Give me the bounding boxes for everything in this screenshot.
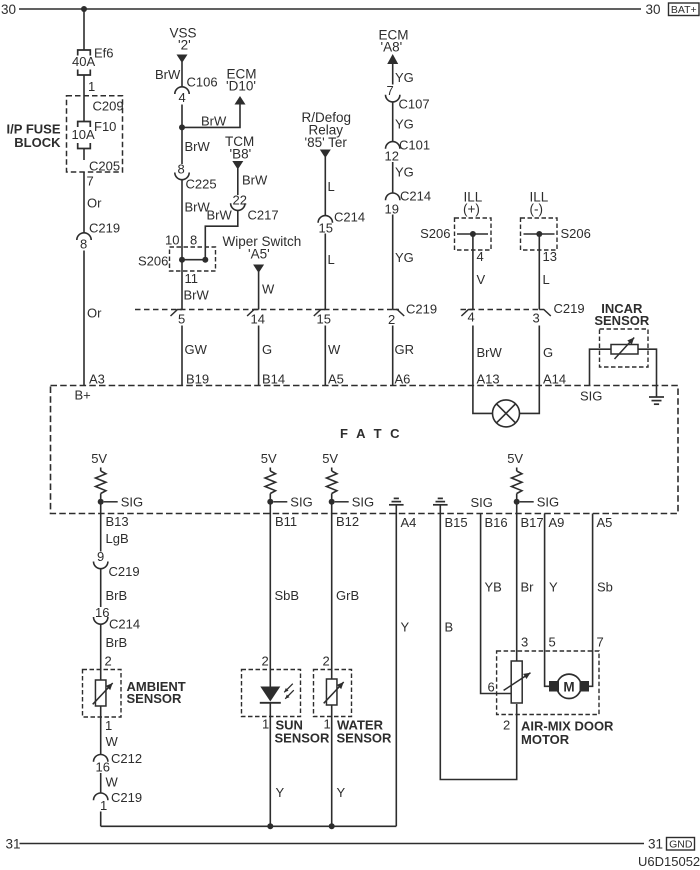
wire: FATC pin B17 to air-mix motor pin 3, Br (516, 514, 518, 662)
junction dot S206 ILL+ (470, 231, 476, 237)
svg-text:Y: Y (549, 580, 558, 595)
wire: ambient sensor pin 1 to C212, W (100, 706, 102, 755)
svg-text:A5: A5 (328, 372, 344, 387)
ambient sensor thermistor (95, 680, 106, 706)
svg-text:C219: C219 (89, 221, 120, 236)
junction dot water sensor on ground bus (329, 823, 335, 829)
svg-text:1: 1 (262, 717, 269, 732)
wire: FATC pin A14 to lamp (520, 386, 540, 414)
svg-text:BAT+: BAT+ (671, 4, 697, 16)
wire: INCAR sensor to ground (638, 349, 657, 397)
svg-text:(+): (+) (463, 202, 480, 217)
svg-text:15: 15 (317, 312, 331, 327)
wire: C107 to C101, YG (392, 102, 394, 142)
svg-text:1: 1 (324, 717, 331, 732)
svg-text:A14: A14 (543, 372, 566, 387)
svg-text:W: W (106, 775, 119, 790)
svg-text:5V: 5V (261, 451, 277, 466)
svg-text:2: 2 (262, 654, 269, 669)
svg-text:YG: YG (395, 250, 414, 265)
junction dot BrW splice (179, 124, 185, 130)
svg-text:C219: C219 (109, 564, 140, 579)
junction dot S206 pin 8 (202, 257, 208, 263)
svg-text:Sb: Sb (597, 580, 613, 595)
wire: S206 pin 13 to C219 pin 3, L (538, 234, 540, 310)
svg-text:1: 1 (88, 79, 95, 94)
svg-text:BLOCK: BLOCK (14, 135, 61, 150)
svg-text:GR: GR (395, 342, 415, 357)
svg-text:BrW: BrW (207, 208, 233, 223)
splice S206 box (170, 247, 216, 271)
svg-text:SENSOR: SENSOR (337, 731, 393, 746)
svg-text:B16: B16 (485, 515, 508, 530)
wire: C219 pin 5 to FATC pin B19, GW (181, 326, 183, 386)
wire: FATC pin A9 to air-mix motor pin 5, Y (545, 514, 550, 687)
svg-text:Or: Or (87, 196, 102, 211)
svg-text:12: 12 (385, 149, 399, 164)
ground (FATC pin B15) (433, 504, 448, 506)
svg-text:1: 1 (100, 798, 107, 813)
svg-text:6: 6 (488, 680, 495, 695)
ground rail 31 (GND) (20, 843, 645, 845)
svg-text:YB: YB (485, 580, 502, 595)
svg-text:30: 30 (646, 2, 661, 17)
illumination lamp (493, 400, 520, 427)
air-mix position potentiometer (511, 661, 522, 703)
svg-text:C219: C219 (111, 790, 142, 805)
svg-text:SIG: SIG (121, 495, 143, 510)
svg-text:(-): (-) (530, 202, 544, 217)
junction dot S206 pin 10/11 (179, 257, 185, 263)
svg-text:C219: C219 (554, 301, 585, 316)
power rail 30 (BAT+) (19, 8, 641, 10)
svg-text:SIG: SIG (352, 495, 374, 510)
motor terminal left (550, 682, 559, 692)
water sensor box (314, 670, 352, 717)
ambient sensor box (83, 670, 122, 718)
BAT+ terminal box (669, 3, 700, 16)
svg-text:BrW: BrW (184, 288, 210, 303)
svg-text:SbB: SbB (275, 588, 300, 603)
connector C219 pin 4 tick (461, 310, 473, 317)
svg-text:31: 31 (648, 837, 663, 852)
svg-text:C219: C219 (406, 302, 437, 317)
wire: FATC pin B15 to air-mix motor pin 2, B (440, 514, 516, 780)
svg-text:19: 19 (385, 202, 399, 217)
fuse F10 10A (78, 122, 91, 128)
svg-text:B11: B11 (275, 514, 297, 529)
svg-text:BrW: BrW (185, 139, 211, 154)
svg-text:'2': '2' (178, 38, 191, 53)
wire: FATC pin A4 to ground bus, Y (395, 514, 397, 827)
svg-text:BrW: BrW (242, 173, 268, 188)
svg-text:C205: C205 (89, 159, 120, 174)
branch wire to ECM 'D10' (182, 104, 240, 127)
wire: C214 to ambient sensor pin 2, BrB (100, 624, 102, 680)
splice S206 box (ILL+) (455, 218, 492, 250)
svg-text:YG: YG (395, 70, 414, 85)
svg-text:2: 2 (105, 654, 112, 669)
svg-text:B15: B15 (445, 515, 468, 530)
wire: sun sensor pin 1 to ground bus, Y (269, 703, 271, 827)
svg-text:M: M (563, 679, 574, 694)
splice S206 box (ILL-) (521, 218, 558, 250)
connector C219 pin 2 tick and label (393, 310, 405, 317)
svg-text:L: L (328, 179, 335, 194)
svg-text:Y: Y (276, 785, 285, 800)
INCAR sensor thermistor (611, 345, 638, 355)
junction dot sun sensor on ground bus (267, 823, 273, 829)
wire: C219 pin 3 to FATC pin A14, G (538, 326, 540, 386)
connector C219 pin 14 tick (247, 310, 259, 317)
svg-text:10: 10 (165, 233, 179, 248)
svg-text:Br: Br (521, 580, 535, 595)
svg-text:BrW: BrW (477, 345, 503, 360)
wire: C219 pin 2 to FATC pin A6, GR (392, 326, 394, 386)
I/P fuse block box (67, 96, 123, 172)
svg-text:A5: A5 (597, 515, 613, 530)
wire: FATC pin B13 to C219 pin 9, LgB (100, 514, 102, 552)
svg-text:2: 2 (323, 654, 330, 669)
sun sensor photodiode (260, 687, 280, 702)
INCAR sensor box (600, 329, 649, 367)
svg-text:15: 15 (319, 221, 333, 236)
svg-text:SENSOR: SENSOR (127, 691, 183, 706)
svg-text:3: 3 (521, 635, 528, 650)
svg-text:G: G (262, 342, 272, 357)
svg-text:BrW: BrW (155, 67, 181, 82)
wire: Or to FATC pin A3 (83, 251, 85, 386)
wire: FATC pin B11 to sun sensor, SbB (269, 514, 271, 687)
svg-text:'85' Ter: '85' Ter (305, 135, 348, 150)
wire: relay to C214 pin 15, L (324, 157, 326, 216)
wire: water sensor pin 1 to ground bus, Y (331, 705, 333, 826)
svg-text:10A: 10A (72, 127, 95, 142)
junction dot on rail 30 (81, 6, 87, 12)
svg-text:C225: C225 (186, 177, 217, 192)
svg-text:W: W (262, 282, 275, 297)
splice S206 bus wire (182, 259, 205, 261)
svg-text:B: B (445, 620, 454, 635)
svg-text:A6: A6 (395, 372, 411, 387)
connector C219 pin 15 tick (314, 310, 326, 317)
svg-text:B17: B17 (521, 515, 544, 530)
svg-text:5V: 5V (322, 451, 338, 466)
svg-text:A9: A9 (549, 515, 565, 530)
svg-text:B13: B13 (106, 514, 129, 529)
svg-text:5: 5 (549, 635, 556, 650)
svg-text:SIG: SIG (290, 495, 312, 510)
wire: C219 pin 4 to FATC pin A13, BrW (472, 326, 474, 386)
wire: C219 pin 14 to FATC pin B14, G (258, 326, 260, 386)
wire: C219 pin 15 to FATC pin A5, W (324, 326, 326, 386)
svg-text:C214: C214 (334, 210, 365, 225)
GND terminal box (667, 838, 695, 851)
svg-text:W: W (106, 734, 119, 749)
svg-text:C209: C209 (93, 99, 124, 114)
svg-text:C214: C214 (400, 189, 431, 204)
svg-text:BrB: BrB (106, 635, 128, 650)
wire: C214 to C219 pin 2, YG (392, 215, 394, 310)
wire: FATC pin A13 to lamp (473, 386, 493, 414)
svg-text:B14: B14 (262, 372, 285, 387)
wire: C101 to C214 pin 19, YG (392, 162, 394, 193)
water sensor thermistor (326, 679, 337, 705)
svg-text:C107: C107 (399, 97, 430, 112)
svg-text:16: 16 (96, 760, 110, 775)
svg-text:S206: S206 (420, 226, 450, 241)
svg-text:4: 4 (179, 90, 186, 105)
svg-text:GW: GW (185, 342, 208, 357)
svg-text:'A8': 'A8' (381, 40, 403, 55)
svg-text:SIG: SIG (537, 495, 559, 510)
wire: wiper switch to C219 pin 14, W (258, 272, 260, 310)
svg-text:'A5': 'A5' (248, 247, 270, 262)
svg-text:14: 14 (251, 312, 265, 327)
svg-text:2: 2 (388, 312, 395, 327)
wire: junction to C225 (181, 127, 183, 164)
splice S206 bus wire (ILL-) (524, 233, 555, 235)
svg-text:BrW: BrW (201, 114, 227, 129)
wire: C219 pin 1 to sensor ground bus (100, 812, 102, 827)
svg-text:S206: S206 (138, 254, 168, 269)
air-mix door motor box (497, 651, 599, 715)
svg-text:Or: Or (87, 306, 102, 321)
svg-text:YG: YG (395, 117, 414, 132)
wire: C225 to splice S206 (181, 180, 183, 260)
svg-text:5V: 5V (91, 451, 107, 466)
svg-text:C212: C212 (111, 751, 142, 766)
svg-text:L: L (543, 272, 550, 287)
svg-text:5V: 5V (507, 451, 523, 466)
svg-text:31: 31 (6, 837, 21, 852)
svg-text:Ef6: Ef6 (94, 46, 114, 61)
svg-text:G: G (543, 345, 553, 360)
svg-text:A4: A4 (401, 515, 417, 530)
wire: ECM arrow to C107, YG (392, 64, 394, 85)
svg-text:4: 4 (477, 249, 484, 264)
svg-text:MOTOR: MOTOR (521, 732, 570, 747)
wire: S206 pin 4 to C219 pin 4, V (472, 234, 474, 310)
svg-text:LgB: LgB (106, 531, 129, 546)
wire: VSS to C106 (181, 62, 183, 87)
svg-text:L: L (328, 252, 335, 267)
svg-text:SIG: SIG (580, 389, 602, 404)
svg-text:V: V (477, 272, 486, 287)
svg-text:F10: F10 (94, 119, 116, 134)
sensor ground bus wire (101, 825, 397, 827)
svg-text:1: 1 (105, 718, 112, 733)
connector C219 dashed row left segment (135, 309, 399, 311)
wire: C219 to C214 pin 16, BrB (100, 569, 102, 607)
motor M (557, 674, 581, 698)
wire: C205 pin 7, Or (83, 172, 85, 233)
svg-text:GrB: GrB (336, 588, 359, 603)
svg-text:B12: B12 (336, 514, 359, 529)
svg-text:7: 7 (87, 174, 94, 189)
svg-text:7: 7 (387, 83, 394, 98)
svg-text:'D10': 'D10' (226, 79, 256, 94)
svg-text:A3: A3 (89, 372, 105, 387)
svg-text:A13: A13 (477, 372, 500, 387)
svg-text:'B8': 'B8' (230, 147, 252, 162)
svg-text:3: 3 (533, 311, 540, 326)
sun sensor box (242, 670, 301, 717)
svg-text:S206: S206 (561, 226, 591, 241)
svg-text:Y: Y (337, 785, 346, 800)
svg-text:9: 9 (97, 549, 104, 564)
svg-text:8: 8 (178, 162, 185, 177)
wire: C214 to C219 pin 15, L (324, 234, 326, 310)
wire: C106 to junction (181, 105, 183, 128)
svg-text:YG: YG (395, 165, 414, 180)
motor terminal right (580, 682, 589, 692)
svg-text:2: 2 (503, 718, 510, 733)
wire: rail 30 to fuse Ef6 (83, 9, 85, 50)
wire: Ef6 to I/P fuse block pin 1 (83, 75, 85, 122)
FATC control unit box (51, 386, 679, 514)
ground (INCAR sensor) (649, 396, 664, 398)
svg-text:C106: C106 (187, 75, 218, 90)
splice S206 bus wire (ILL+) (457, 233, 488, 235)
wire: TCM to C217 (237, 169, 239, 196)
svg-text:GND: GND (669, 839, 693, 851)
wire: FATC pin B16 to air-mix motor pin 6, YB (481, 514, 512, 694)
wire: FATC pin B12 to water sensor, GrB (331, 514, 333, 680)
svg-text:B+: B+ (75, 388, 91, 403)
svg-text:5: 5 (178, 312, 185, 327)
junction dot S206 ILL- (536, 231, 542, 237)
svg-text:C217: C217 (248, 208, 279, 223)
wire: FATC pin A5 to air-mix motor pin 7, Sb (589, 514, 593, 687)
wire: INCAR sensor to FATC SIG (590, 349, 612, 385)
svg-text:C214: C214 (109, 617, 140, 632)
wire: S206 pin 11 to C219 pin 5 (181, 260, 183, 310)
svg-text:F A T C: F A T C (340, 426, 402, 441)
svg-text:SIG: SIG (471, 495, 493, 510)
svg-text:11: 11 (185, 271, 199, 286)
svg-text:W: W (328, 342, 341, 357)
svg-text:SENSOR: SENSOR (594, 313, 650, 328)
svg-text:SENSOR: SENSOR (275, 731, 331, 746)
svg-text:30: 30 (1, 2, 16, 17)
svg-text:B19: B19 (186, 372, 209, 387)
connector C219 pin 3 tick (539, 310, 551, 317)
svg-text:BrB: BrB (106, 588, 128, 603)
svg-text:40A: 40A (72, 54, 95, 69)
svg-text:4: 4 (468, 310, 475, 325)
fuse Ef6 40A (78, 50, 91, 56)
svg-text:Y: Y (401, 620, 410, 635)
connector C219 pin 5 tick (171, 310, 183, 317)
svg-text:8: 8 (80, 237, 87, 252)
svg-text:8: 8 (190, 233, 197, 248)
svg-text:C101: C101 (399, 138, 430, 153)
svg-text:U6D15052: U6D15052 (638, 854, 700, 869)
connector C219 dashed row right segment (461, 309, 541, 311)
wire: C212 to C219 pin 1, W (100, 773, 102, 793)
wire: C217 jog to splice S206 (205, 210, 238, 259)
svg-text:7: 7 (597, 635, 604, 650)
ground (FATC pin A4) (389, 504, 404, 506)
svg-text:13: 13 (543, 249, 557, 264)
